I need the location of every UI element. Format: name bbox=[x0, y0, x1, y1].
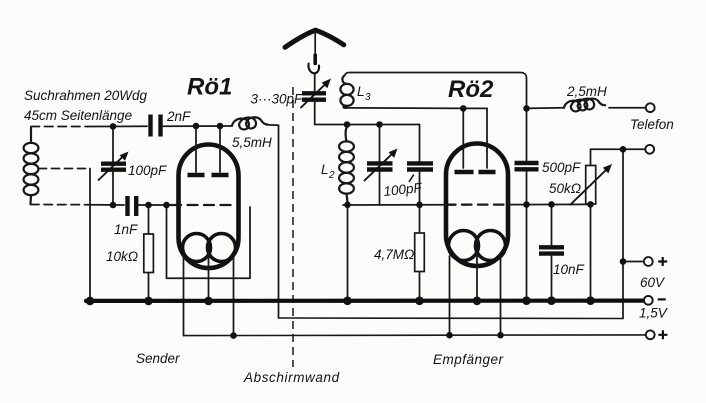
tube Rö2 anode lead 1 bbox=[462, 108, 464, 168]
variable tuning capacitor lead upper bbox=[379, 125, 381, 162]
wire pot bottom to bus bbox=[590, 204, 592, 301]
terminal plus 60V bbox=[644, 257, 653, 266]
variable capacitor 100pF lead lower bbox=[112, 172, 114, 205]
inductor 5.5mH bbox=[232, 117, 268, 129]
antenna bbox=[285, 30, 344, 73]
tube Rö1 envelope bbox=[179, 145, 239, 269]
label L2 bbox=[321, 162, 335, 181]
junction L2 top / antenna wire bbox=[344, 121, 351, 128]
svg-text:500pF: 500pF bbox=[542, 160, 581, 175]
junction pot bottom on detector wire bbox=[587, 201, 594, 208]
plus sign 60V bbox=[658, 257, 667, 266]
variable capacitor 100pF bbox=[99, 152, 129, 181]
svg-text:1nF: 1nF bbox=[114, 222, 138, 237]
svg-text:L: L bbox=[321, 162, 329, 177]
junction 500pF lead on detector wire bbox=[523, 201, 530, 208]
svg-text:3: 3 bbox=[365, 92, 371, 103]
variable tuning capacitor bbox=[365, 149, 398, 181]
antenna lead to trimmer bbox=[314, 73, 316, 90]
tube Rö2 envelope bbox=[446, 144, 508, 267]
wire plus terminal 60V bbox=[623, 261, 644, 263]
svg-text:Sender: Sender bbox=[136, 351, 180, 366]
junction Rö2 heater left on 1.5V rail bbox=[446, 332, 453, 339]
60V supply rail bbox=[279, 317, 624, 320]
junction Rö1 cathode on bus bbox=[204, 297, 213, 306]
capacitor 10nF bbox=[539, 247, 564, 253]
terminal Telefon lower bbox=[645, 145, 654, 154]
svg-text:45cm Seitenlänge: 45cm Seitenlänge bbox=[24, 108, 132, 123]
tube Rö1 filament left hump bbox=[183, 234, 211, 262]
tube Rö1 filament right hump bbox=[208, 234, 236, 262]
terminal Telefon upper bbox=[646, 103, 655, 112]
tube Rö2 heater lead right bbox=[500, 256, 502, 335]
junction grid box corner Rö1 bbox=[163, 202, 170, 209]
resistor 10kOhm leads bbox=[148, 205, 150, 301]
resistor 4.7MOhm bbox=[415, 233, 425, 272]
heater rail 1.5V bbox=[184, 334, 646, 337]
minus bus rail bbox=[86, 299, 644, 303]
tube Rö2 anode plate 2 bbox=[479, 170, 496, 174]
trimmer capacitor 3···30pF bbox=[301, 79, 331, 108]
junction 4.7M bottom on bus bbox=[415, 297, 424, 306]
terminal plus 1.5V bbox=[646, 330, 655, 339]
junction 500pF ground on bus bbox=[522, 296, 531, 305]
wire grid node to Rö2 bbox=[343, 204, 444, 206]
junction L2 ground on bus bbox=[343, 297, 352, 306]
svg-text:2: 2 bbox=[328, 170, 335, 181]
wire mid tap down to bus bbox=[89, 169, 91, 301]
capacitor 2nF bbox=[151, 115, 161, 137]
svg-text:Telefon: Telefon bbox=[630, 117, 674, 132]
tube Rö1 heater lead left bbox=[183, 257, 185, 336]
svg-text:100pF: 100pF bbox=[128, 163, 167, 178]
wire dashed coil mid tap bbox=[39, 168, 91, 170]
wire grid line Rö2 to detector RC bbox=[507, 203, 591, 205]
wire L2 node to grid cap corner bbox=[347, 124, 420, 126]
svg-text:10kΩ: 10kΩ bbox=[106, 249, 138, 264]
tube Rö1 anode lead 1 bbox=[195, 126, 197, 172]
junction 10k top on grid wire bbox=[145, 202, 152, 209]
tube Rö1 grid dashed bbox=[171, 204, 237, 206]
shield wall dashed line Abschirmwand bbox=[292, 87, 294, 367]
60V rail vertical bbox=[622, 149, 624, 318]
tube Rö2 filament left hump bbox=[449, 231, 479, 261]
tube Rö2 grid dashed bbox=[446, 203, 507, 205]
junction Rö1 heater on 1.5V rail bbox=[230, 332, 237, 339]
tube Rö1 cathode lead to bus bbox=[208, 241, 210, 301]
grid circuit box around Rö1 bbox=[167, 205, 251, 278]
minus sign bbox=[658, 298, 666, 300]
tube Rö1 heater lead right bbox=[233, 257, 235, 336]
svg-text:L: L bbox=[357, 84, 365, 99]
wire 2nF to anode node Rö1 bbox=[163, 125, 232, 127]
wire 500pF down to bus bbox=[526, 172, 528, 301]
wire Telefon lower to pot top bbox=[591, 149, 646, 165]
svg-text:4,7MΩ: 4,7MΩ bbox=[374, 247, 414, 262]
wire anode node down bbox=[526, 108, 528, 161]
svg-text:3···30pF: 3···30pF bbox=[251, 92, 304, 107]
wire L3 top over to 2.5mH node bbox=[345, 73, 527, 109]
capacitor 10nF lead upper bbox=[551, 204, 553, 245]
svg-text:50kΩ: 50kΩ bbox=[549, 181, 581, 196]
tube Rö2 filament right hump bbox=[476, 231, 506, 261]
svg-text:1,5V: 1,5V bbox=[639, 306, 669, 321]
wire L2 bottom grid node to bus bbox=[347, 205, 349, 301]
tube Rö2 anode plate 1 bbox=[455, 170, 474, 174]
junction 10nF bottom on bus bbox=[547, 296, 556, 305]
junction 100pF grid cap / 4.7M node bbox=[416, 202, 423, 209]
svg-text:Empfänger: Empfänger bbox=[433, 352, 504, 367]
junction L3 / 2.5mH / 500pF node bbox=[523, 105, 530, 112]
loop antenna coil Suchrahmen bbox=[24, 128, 39, 205]
inductor L2 bbox=[339, 125, 354, 205]
svg-text:2nF: 2nF bbox=[166, 109, 191, 124]
wire trimmer down and right to L2 node bbox=[315, 102, 347, 125]
wire 5.5mH to 60V rail corner bbox=[267, 125, 279, 318]
svg-text:100pF: 100pF bbox=[383, 180, 423, 199]
junction Rö1 anode 2 node bbox=[217, 123, 224, 130]
resistor 10kOhm bbox=[144, 234, 154, 273]
inductor 2.5mH bbox=[527, 99, 646, 112]
tube Rö2 cathode lead to bus bbox=[476, 239, 478, 301]
capacitor 500pF bbox=[515, 163, 539, 169]
svg-text:2,5mH: 2,5mH bbox=[566, 84, 607, 99]
svg-text:Abschirmwand: Abschirmwand bbox=[243, 370, 340, 385]
wire dashed coil bottom bbox=[31, 204, 89, 206]
junction Rö2 heater right on 1.5V rail bbox=[497, 332, 504, 339]
grid capacitor 100pF bbox=[407, 163, 433, 169]
junction Rö2 anode node bbox=[460, 105, 467, 112]
wire dashed coil top to node bbox=[31, 126, 88, 128]
svg-text:Rö2: Rö2 bbox=[448, 76, 494, 103]
svg-text:5,5mH: 5,5mH bbox=[232, 135, 272, 150]
tube Rö1 anode plate 2 bbox=[212, 173, 229, 177]
plus sign 1.5V bbox=[658, 330, 667, 339]
variable capacitor 100pF lead upper bbox=[112, 127, 114, 162]
variable tuning capacitor lead lower bbox=[379, 172, 381, 205]
value label 100pF with leader bbox=[383, 175, 423, 199]
junction 60V rail / Telefon wire bbox=[620, 146, 627, 153]
tube Rö1 anode lead 2 bbox=[219, 126, 221, 172]
junction coil top / 100pF / 2nF node bbox=[110, 123, 117, 130]
junction bus left end bbox=[86, 297, 95, 306]
svg-text:60V: 60V bbox=[640, 275, 666, 290]
junction Rö2 cathode on bus bbox=[473, 297, 482, 306]
junction pot ground on bus bbox=[586, 296, 595, 305]
terminal minus bbox=[644, 296, 653, 305]
tube Rö2 heater lead left bbox=[449, 256, 451, 335]
wire node to 2nF bbox=[88, 125, 147, 127]
tube Rö2 anode lead 2 bbox=[486, 108, 488, 168]
label Suchrahmen bbox=[24, 88, 148, 123]
svg-text:Suchrahmen 20Wdg: Suchrahmen 20Wdg bbox=[24, 88, 148, 103]
wire 1nF to grid node bbox=[139, 204, 172, 206]
grid capacitor 100pF lead lower bbox=[419, 172, 421, 205]
inductor L3 bbox=[340, 76, 353, 108]
grid capacitor 100pF lead upper bbox=[419, 125, 421, 162]
svg-text:Rö1: Rö1 bbox=[187, 74, 232, 101]
svg-text:10nF: 10nF bbox=[553, 262, 585, 277]
wire coil bottom to 1nF bbox=[88, 204, 124, 206]
capacitor 10nF lead lower bbox=[551, 256, 553, 301]
junction 60V rail / plus terminal bbox=[620, 258, 627, 265]
junction L2 bottom grid node bbox=[344, 202, 351, 209]
junction 10k bottom on bus bbox=[144, 297, 153, 306]
tube Rö1 anode plate 1 bbox=[188, 173, 205, 177]
junction tuning cap top bbox=[376, 121, 383, 128]
potentiometer 50kOhm bbox=[571, 164, 613, 205]
junction Rö1 anode 1 node bbox=[193, 123, 200, 130]
capacitor 1nF bbox=[128, 196, 137, 216]
resistor 4.7MOhm leads bbox=[419, 205, 421, 301]
label L3 bbox=[357, 84, 371, 103]
junction 10nF top bbox=[548, 201, 555, 208]
junction 100pF bottom on grid wire bbox=[110, 202, 117, 209]
wire L3 bottom to Rö2 anodes bbox=[346, 107, 487, 110]
